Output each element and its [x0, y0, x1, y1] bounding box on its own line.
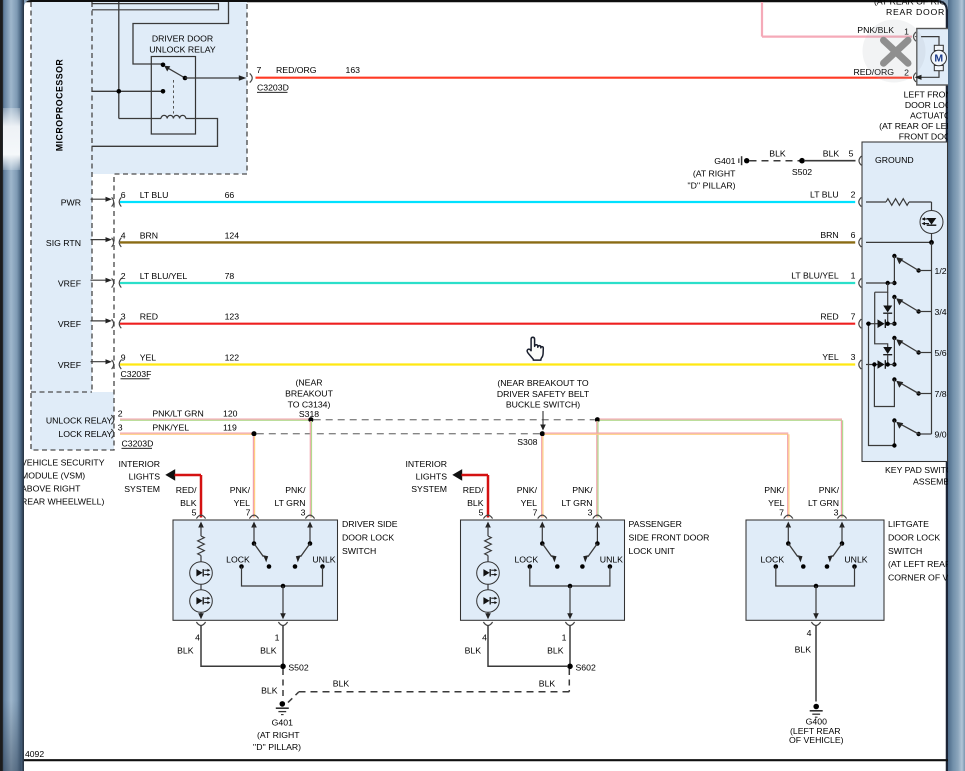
wire BLK dashed ground bus: [288, 692, 299, 702]
wire BLK dashed S602 to ground bus: [568, 669, 570, 692]
ground G400: [813, 704, 819, 710]
svg-text:BLK: BLK: [260, 646, 277, 656]
svg-text:OF VEHICLE): OF VEHICLE): [789, 735, 844, 745]
svg-text:3: 3: [121, 312, 126, 322]
svg-text:1: 1: [275, 633, 280, 643]
keypad switch 7/8: [892, 377, 896, 381]
svg-text:7: 7: [851, 311, 856, 321]
keypad pivot link 9/0 jog: [869, 326, 895, 446]
pin 1 row wiring: [866, 282, 894, 284]
wire pin 6 row to bus: [866, 241, 932, 243]
motor brush tabs: [934, 45, 943, 50]
svg-text:UNLK: UNLK: [312, 555, 335, 565]
keypad switch 3/4: [892, 295, 896, 299]
svg-text:BLK: BLK: [261, 686, 278, 696]
keypad switch 5/6: [892, 336, 896, 340]
svg-text:LT BLU: LT BLU: [140, 190, 169, 200]
svg-text:BLK: BLK: [769, 148, 786, 158]
relay lower contact dot: [161, 89, 166, 94]
svg-text:INTERIOR: INTERIOR: [405, 459, 447, 469]
relay coil dashed link: [173, 80, 175, 114]
wire: coil left feed: [119, 118, 161, 120]
svg-text:(NEAR: (NEAR: [295, 378, 322, 388]
svg-text:KEY PAD SWITCH: KEY PAD SWITCH: [885, 465, 948, 475]
svg-text:120: 120: [223, 409, 238, 419]
svg-text:2: 2: [121, 271, 126, 281]
svg-text:UNLK: UNLK: [600, 555, 623, 565]
svg-text:LIFTGATE: LIFTGATE: [888, 519, 929, 529]
svg-text:(AT LEFT REAR: (AT LEFT REAR: [888, 559, 948, 569]
wire BLK liftgate pin4 to G400: [815, 626, 817, 702]
junction dot row1/passenger pin3: [595, 417, 600, 422]
wire: cut-off box bottom, top left: [92, 4, 219, 10]
svg-text:163: 163: [346, 65, 361, 75]
svg-text:LIGHTS: LIGHTS: [416, 472, 448, 482]
svg-text:LOCK: LOCK: [226, 555, 250, 565]
wire PNK/LT GRN down to passenger pin 3: [596, 421, 598, 518]
svg-text:UNLOCK RELAY: UNLOCK RELAY: [149, 45, 216, 55]
svg-text:YEL: YEL: [521, 498, 538, 508]
svg-text:BRN: BRN: [140, 230, 158, 240]
svg-text:3: 3: [301, 508, 306, 518]
wire BLK driver pin4 to S502: [201, 626, 280, 667]
svg-text:(AT REAR OF LEFT: (AT REAR OF LEFT: [879, 121, 948, 131]
svg-text:LT BLU: LT BLU: [810, 190, 839, 200]
svg-text:PNK/LT GRN: PNK/LT GRN: [152, 409, 203, 419]
relay switch pivot dot: [161, 63, 166, 68]
svg-text:YEL: YEL: [768, 498, 785, 508]
svg-text:DOOR LOCK: DOOR LOCK: [888, 532, 940, 542]
svg-text:ASSEMBLY: ASSEMBLY: [913, 477, 948, 487]
keypad ground bus: [931, 242, 933, 434]
svg-text:BLK: BLK: [465, 646, 482, 656]
svg-text:G401: G401: [272, 718, 293, 728]
svg-text:BLK: BLK: [823, 148, 840, 158]
svg-text:9: 9: [121, 353, 126, 363]
wire PNK/LT GRN to liftgate pin 3: [600, 418, 843, 420]
svg-text:122: 122: [225, 353, 240, 363]
svg-text:GROUND: GROUND: [875, 155, 914, 165]
svg-text:PNK/: PNK/: [764, 485, 785, 495]
svg-text:LOCK UNIT: LOCK UNIT: [629, 546, 676, 556]
svg-text:PWR: PWR: [61, 197, 81, 207]
svg-text:REAR WHEELWELL): REAR WHEELWELL): [24, 497, 104, 507]
close button X overlay: [863, 20, 926, 83]
right window chrome strip: [948, 0, 965, 771]
splice S308: [540, 431, 545, 436]
pin 3 row wiring with diode D4: [866, 364, 878, 366]
svg-text:S308: S308: [517, 437, 537, 447]
diode branch D1 to pin 7 row: [875, 283, 888, 292]
svg-text:LT GRN: LT GRN: [561, 498, 592, 508]
relay arm output dot: [183, 76, 188, 81]
wire: coil right return staircase: [92, 119, 218, 147]
wire RED/BLK arrow to interior lights (driver): [165, 469, 175, 481]
keypad pin 5 bracket: [859, 156, 862, 165]
svg-text:SWITCH: SWITCH: [888, 546, 922, 556]
wire: relay output to connector C3203D pin 7: [185, 77, 243, 79]
svg-text:ABOVE RIGHT: ABOVE RIGHT: [24, 484, 81, 494]
svg-text:3: 3: [851, 352, 856, 362]
relay K1 box: [151, 57, 195, 135]
svg-text:7/8: 7/8: [935, 389, 947, 399]
svg-text:3/4: 3/4: [935, 307, 947, 317]
svg-text:2: 2: [851, 190, 856, 200]
splice S318: [308, 417, 313, 422]
svg-text:VREF: VREF: [58, 360, 81, 370]
connector bracket pin 7: [250, 73, 253, 82]
wire BLK driver pin1 down: [282, 626, 284, 667]
wire: dashed PNK/LT GRN run: [314, 419, 595, 421]
svg-text:LEFT FRONT: LEFT FRONT: [904, 90, 948, 100]
wire BLK dashed S502 to G401: [282, 669, 284, 698]
svg-text:5: 5: [479, 508, 484, 518]
svg-text:4: 4: [121, 230, 126, 240]
svg-text:VREF: VREF: [58, 278, 81, 288]
svg-text:MODULE (VSM): MODULE (VSM): [24, 471, 85, 481]
svg-text:BREAKOUT: BREAKOUT: [285, 389, 333, 399]
svg-text:BUCKLE SWITCH): BUCKLE SWITCH): [506, 400, 580, 410]
wire: staircase from top to relay pivot: [133, 2, 229, 64]
svg-text:4: 4: [195, 633, 200, 643]
svg-text:6: 6: [851, 230, 856, 240]
splice S602: [567, 664, 573, 670]
svg-text:RED/: RED/: [176, 485, 197, 495]
svg-text:REAR DOOR: REAR DOOR: [886, 7, 945, 17]
svg-text:CORNER OF VEHICLE): CORNER OF VEHICLE): [888, 573, 948, 583]
svg-text:DRIVER SIDE: DRIVER SIDE: [342, 519, 398, 529]
svg-text:LT BLU/YEL: LT BLU/YEL: [791, 271, 839, 281]
svg-text:124: 124: [225, 230, 240, 240]
svg-text:BLK: BLK: [177, 646, 194, 656]
svg-text:7: 7: [257, 65, 262, 75]
svg-text:DOOR LOCK: DOOR LOCK: [905, 100, 948, 110]
svg-text:MICROPROCESSOR: MICROPROCESSOR: [55, 59, 65, 152]
svg-text:VEHICLE SECURITY: VEHICLE SECURITY: [24, 458, 105, 468]
relay coil L1: [161, 115, 186, 118]
wire PNK/LT GRN 120: [120, 418, 311, 420]
svg-text:S318: S318: [299, 409, 319, 419]
svg-text:5: 5: [192, 508, 197, 518]
svg-text:5: 5: [849, 148, 854, 158]
svg-text:BLK: BLK: [795, 645, 812, 655]
svg-text:RED/: RED/: [463, 485, 484, 495]
diagram bottom frame line: [24, 759, 948, 761]
junction dot pin6/bus: [929, 240, 934, 245]
driver side door lock switch box S1: [173, 520, 338, 620]
svg-text:(AT RIGHT: (AT RIGHT: [693, 169, 736, 179]
wire PNK/YEL down to passenger pin 7: [541, 436, 543, 518]
wire BLK passenger pin4 to S602: [488, 626, 567, 667]
svg-text:PNK/: PNK/: [285, 485, 306, 495]
svg-text:S602: S602: [576, 662, 596, 672]
svg-text:S502: S502: [792, 167, 812, 177]
wire BLK passenger pin1 down: [569, 626, 571, 667]
svg-text:SYSTEM: SYSTEM: [411, 484, 447, 494]
svg-text:SWITCH: SWITCH: [342, 546, 376, 556]
svg-text:YEL: YEL: [234, 498, 251, 508]
svg-text:(AT REAR OF RIG: (AT REAR OF RIG: [874, 0, 946, 7]
svg-text:PNK/YEL: PNK/YEL: [152, 422, 189, 432]
svg-text:PNK/: PNK/: [572, 485, 593, 495]
keypad switch 1/2: [892, 254, 896, 258]
svg-text:ACTUATOR: ACTUATOR: [910, 111, 948, 121]
svg-text:(NEAR BREAKOUT TO: (NEAR BREAKOUT TO: [497, 378, 588, 388]
svg-text:S502: S502: [288, 662, 308, 672]
arrow to S308: [542, 411, 544, 426]
svg-text:RED: RED: [820, 311, 838, 321]
svg-text:BLK: BLK: [547, 646, 564, 656]
wire: relay common row: [92, 90, 164, 92]
svg-text:4: 4: [482, 633, 487, 643]
svg-text:RED/ORG: RED/ORG: [276, 65, 317, 75]
svg-text:UNLK: UNLK: [844, 555, 867, 565]
svg-text:BRN: BRN: [820, 230, 838, 240]
svg-text:LT BLU/YEL: LT BLU/YEL: [140, 271, 188, 281]
svg-text:7: 7: [779, 508, 784, 518]
svg-text:LT GRN: LT GRN: [808, 498, 839, 508]
cursor hand icon: [527, 337, 543, 360]
svg-text:7: 7: [533, 508, 538, 518]
svg-text:7: 7: [246, 508, 251, 518]
svg-text:3: 3: [118, 422, 123, 432]
svg-text:PNK/: PNK/: [819, 485, 840, 495]
svg-text:DRIVER DOOR: DRIVER DOOR: [152, 34, 213, 44]
svg-text:VREF: VREF: [58, 319, 81, 329]
keypad pivot link 5/6 to pin3: [893, 338, 895, 365]
wire PNK/LT GRN down to driver pin 3: [309, 421, 311, 518]
motor M circle: [931, 50, 947, 66]
keypad pivot link 7/8 jog: [874, 367, 894, 407]
svg-text:119: 119: [223, 422, 237, 432]
relay switch arm: [169, 68, 186, 78]
wire BLK dashed G401 to S502: [750, 160, 803, 162]
key pad switch assembly box: [862, 142, 948, 462]
svg-text:1/2: 1/2: [935, 266, 947, 276]
wire: vertical from top into relay common node: [118, 2, 120, 119]
svg-text:LT GRN: LT GRN: [274, 498, 305, 508]
svg-text:PASSENGER: PASSENGER: [629, 519, 682, 529]
svg-text:BLK: BLK: [539, 679, 556, 689]
wire to LED: [931, 202, 933, 211]
svg-text:YEL: YEL: [822, 352, 839, 362]
svg-text:SIG RTN: SIG RTN: [46, 238, 81, 248]
keypad pivot link 3/4 to pin7: [893, 297, 895, 324]
svg-text:BLK: BLK: [333, 679, 350, 689]
keypad pivot link 1/2 to pin1: [893, 256, 895, 283]
svg-text:6: 6: [121, 190, 126, 200]
actuator motor M1 wiring: [921, 37, 939, 46]
vehicle security module (VSM) dashed outline: [31, 2, 247, 450]
svg-text:G401: G401: [714, 156, 735, 166]
svg-text:INTERIOR: INTERIOR: [118, 459, 160, 469]
microprocessor dashed sub-box: [91, 2, 93, 392]
page right border with rounded corner: [938, 1, 947, 771]
pin 7 row wiring with diode D2: [866, 323, 878, 325]
svg-text:LOCK: LOCK: [514, 555, 538, 565]
svg-text:PNK/: PNK/: [517, 485, 538, 495]
svg-text:TO C3134): TO C3134): [288, 400, 331, 410]
svg-text:123: 123: [225, 312, 240, 322]
keypad LED indicator: [920, 211, 943, 234]
svg-text:2: 2: [118, 409, 123, 419]
wire RED/BLK arrow to interior lights (passenger): [452, 469, 462, 481]
svg-text:UNLOCK RELAY: UNLOCK RELAY: [46, 415, 113, 425]
wire PNK/BLK from top: [761, 2, 763, 37]
VSM module blue background region: [31, 2, 247, 450]
diode branch D3 jog to pin 3 row: [875, 292, 888, 347]
svg-text:3: 3: [834, 508, 839, 518]
passenger side front door lock unit box S2: [461, 520, 625, 620]
svg-text:SIDE FRONT DOOR: SIDE FRONT DOOR: [629, 532, 710, 542]
svg-text:LIGHTS: LIGHTS: [129, 472, 161, 482]
svg-text:YEL: YEL: [140, 353, 157, 363]
svg-text:FRONT DOOR: FRONT DOOR: [899, 132, 948, 142]
splice S502: [280, 664, 286, 670]
liftgate door lock switch box S3: [746, 520, 884, 620]
svg-text:LOCK RELAY: LOCK RELAY: [58, 429, 112, 439]
svg-text:RED: RED: [140, 312, 158, 322]
wire PNK/YEL 119: [120, 432, 254, 434]
svg-text:4092: 4092: [25, 749, 44, 759]
svg-text:78: 78: [225, 271, 235, 281]
svg-text:LOCK: LOCK: [760, 555, 784, 565]
svg-text:DRIVER SAFETY BELT: DRIVER SAFETY BELT: [497, 389, 590, 399]
page top border: [24, 0, 940, 2]
svg-text:''D'' PILLAR): ''D'' PILLAR): [253, 742, 301, 752]
svg-text:C3203D: C3203D: [122, 439, 154, 449]
keypad switch 9/0: [892, 418, 896, 422]
svg-text:(AT RIGHT: (AT RIGHT: [257, 730, 300, 740]
wire PNK/YEL down to driver pin 7: [252, 436, 254, 518]
svg-text:9/0: 9/0: [935, 429, 947, 439]
svg-text:66: 66: [225, 190, 235, 200]
wire: dashed PNK/YEL run to S308: [257, 433, 540, 435]
ground G401: [280, 701, 286, 707]
svg-text:C3203F: C3203F: [121, 369, 152, 379]
keypad resistor R (pin 2 row): [866, 201, 886, 203]
svg-text:C3203D: C3203D: [257, 83, 289, 93]
left window chrome strip: [0, 0, 24, 771]
splice junction dot on PNK/YEL: [251, 431, 256, 436]
svg-text:BLK: BLK: [180, 498, 197, 508]
svg-text:4: 4: [807, 628, 812, 638]
left front door lock actuator box: [917, 29, 951, 86]
svg-text:1: 1: [562, 633, 567, 643]
svg-text:3: 3: [588, 508, 593, 518]
wire RED/ORG 163: [256, 77, 913, 79]
svg-text:SYSTEM: SYSTEM: [124, 484, 160, 494]
svg-text:M: M: [934, 53, 943, 65]
svg-text:1: 1: [851, 271, 856, 281]
wire BLK S502 to keypad pin 5: [805, 160, 856, 162]
svg-text:PNK/: PNK/: [230, 485, 251, 495]
svg-text:DOOR LOCK: DOOR LOCK: [342, 532, 394, 542]
junction dot common: [117, 89, 122, 94]
wire PNK/YEL S308 to liftgate pin 7: [545, 432, 789, 434]
ground G401 (top) symbol: [741, 156, 743, 165]
svg-text:BLK: BLK: [467, 498, 484, 508]
splice S502 (top): [799, 158, 805, 164]
svg-text:5/6: 5/6: [935, 348, 947, 358]
svg-text:''D'' PILLAR): ''D'' PILLAR): [687, 181, 735, 191]
